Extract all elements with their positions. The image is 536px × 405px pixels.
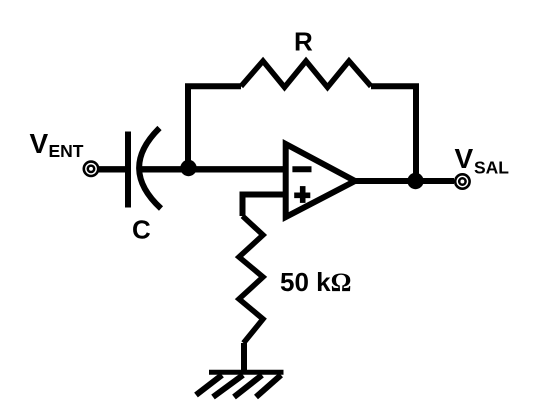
resistor 50k bbox=[239, 216, 263, 343]
svg-text:C: C bbox=[132, 214, 151, 244]
svg-text:ENT: ENT bbox=[49, 141, 84, 161]
label VSAL bbox=[455, 143, 510, 178]
node junction left bbox=[180, 160, 196, 176]
wire top right bbox=[371, 83, 419, 89]
wire plus input bbox=[243, 195, 287, 217]
node junction right bbox=[407, 173, 423, 189]
resistor R bbox=[241, 61, 371, 87]
wire top left bbox=[185, 83, 241, 89]
svg-text:V: V bbox=[30, 128, 49, 159]
capacitor C bbox=[128, 128, 161, 209]
terminal VENT bbox=[84, 162, 98, 176]
label VENT bbox=[30, 128, 84, 161]
ground bbox=[196, 372, 284, 397]
wire output bbox=[354, 178, 454, 184]
wire capacitor to op-amp inverting input bbox=[137, 166, 286, 172]
wire input bbox=[98, 166, 128, 172]
svg-text:50 kΩ: 50 kΩ bbox=[280, 267, 351, 297]
svg-text:R: R bbox=[294, 26, 313, 56]
svg-text:V: V bbox=[455, 143, 474, 174]
wire resistor to ground bbox=[241, 343, 247, 371]
op-amp U1 bbox=[286, 144, 355, 217]
wire right vertical bbox=[413, 86, 419, 181]
wire left vertical bbox=[185, 86, 191, 169]
svg-text:SAL: SAL bbox=[474, 158, 509, 178]
terminal VSAL bbox=[455, 174, 469, 188]
